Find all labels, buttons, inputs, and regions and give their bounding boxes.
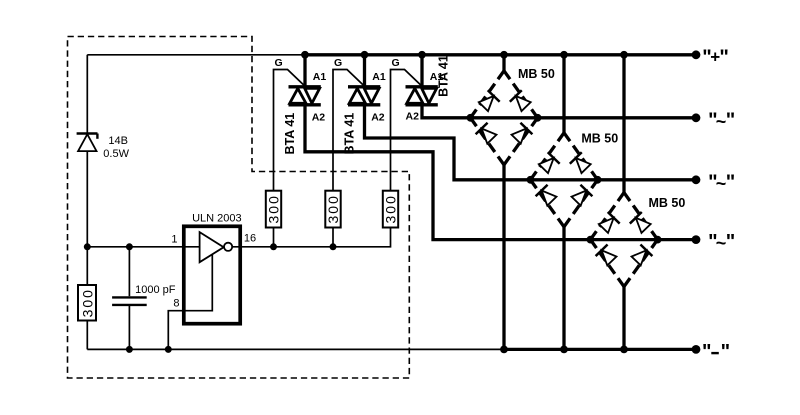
pin 8 label (173, 298, 179, 310)
wire bridge VD1 bottom stub to - bus (502, 164, 505, 350)
diode bridge VD2 MB 50 (530, 133, 597, 227)
terminal "~" phase 2 (692, 171, 736, 193)
svg-text:300: 300 (266, 194, 282, 223)
wire VS3 A2 to bridge1 left vertex (422, 105, 470, 118)
junction node VD3 on - bus (620, 346, 628, 354)
label 14B (108, 135, 128, 147)
svg-text:~: ~ (716, 173, 727, 193)
svg-text:MB 50: MB 50 (518, 67, 555, 81)
svg-text:BTA 41: BTA 41 (437, 55, 451, 97)
junction node R1-pin16 (270, 243, 277, 250)
svg-text:~: ~ (716, 233, 727, 253)
wire bridge VD2 top stub to + bus (562, 55, 565, 134)
terminal "+" output (692, 46, 729, 68)
junction node VD1 right vertex (534, 114, 542, 122)
label A2 (VS2) (371, 112, 385, 124)
svg-text:G: G (275, 57, 283, 69)
wire bottom thin bus (87, 348, 504, 350)
label A1 (VS3) (430, 71, 444, 83)
junction node cap-pin1 (126, 243, 133, 250)
junction node VD3 right vertex (654, 236, 662, 244)
label 1000 pF (135, 284, 176, 296)
IC U1 ULN 2003 box (184, 226, 240, 323)
junction node VD1 on - bus (500, 346, 508, 354)
wire bridge VD3 top stub to + bus (622, 55, 625, 194)
junction node VD1 on + bus (500, 51, 508, 59)
label A2 (VS1) (312, 112, 326, 124)
svg-text:BTA 41: BTA 41 (342, 113, 356, 155)
svg-text:300: 300 (325, 194, 341, 223)
junction node cap-bottom (126, 346, 133, 353)
op-amp inverter inside ULN2003 (200, 232, 233, 262)
triac VS2 symbol (348, 55, 380, 106)
junction node VD3 on + bus (620, 51, 628, 59)
triac VS1 symbol (289, 55, 321, 106)
svg-text:G: G (392, 57, 400, 69)
svg-text:~: ~ (716, 111, 727, 131)
svg-text:A1: A1 (372, 71, 386, 83)
svg-text:G: G (334, 57, 342, 69)
wire gate of VS3 (391, 70, 423, 191)
wire pin16 line from inverter output to gate resistors (232, 228, 390, 247)
svg-text:A2: A2 (312, 112, 326, 124)
wire gate of VS2 (333, 70, 365, 191)
label A1 (VS1) (313, 71, 327, 83)
junction node R2-pin16 (330, 243, 337, 250)
junction node VS2 top on + bus (361, 51, 369, 59)
dashed enclosure of regulator block (68, 37, 410, 379)
resistor 300 (left, on rail) (78, 285, 96, 321)
svg-text:A1: A1 (313, 71, 327, 83)
label BTA 41 (VS3) (437, 55, 451, 97)
junction node rail-pin1 (84, 243, 91, 250)
wire capacitor bottom lead (128, 306, 130, 349)
svg-text:": " (726, 231, 735, 253)
zener diode VD 14B 0.5W (77, 134, 98, 152)
wire pin1 line from rail to inverter input (87, 246, 199, 248)
svg-text:": " (719, 46, 728, 68)
wire left rail lower (resistor to bottom wire) (86, 321, 88, 350)
label MB 50 (VD3) (649, 196, 686, 210)
label MB 50 (VD1) (518, 67, 555, 81)
resistor R1 300 (gate) (266, 191, 282, 228)
wire capacitor top lead (128, 247, 130, 296)
pin 16 label (244, 233, 256, 245)
resistor R2 300 (gate) (325, 191, 341, 228)
label BTA 41 (VS2) (342, 113, 356, 155)
terminal "-" output (692, 341, 730, 363)
wire bridge VD3 bottom stub to - bus (622, 286, 625, 350)
junction node VD2 on - bus (560, 346, 568, 354)
wire top bus thick (+ bus) (305, 53, 696, 56)
svg-text:MB 50: MB 50 (581, 132, 618, 146)
wire bridge VD1 right vertex to ~ terminal 1 (538, 116, 696, 119)
diode bridge VD1 MB 50 (470, 71, 537, 165)
svg-text:": " (726, 171, 735, 193)
junction node VD2 on + bus (560, 51, 568, 59)
label A2 (VS3) (406, 111, 420, 123)
junction node VD2 left vertex (527, 176, 535, 184)
svg-text:0.5W: 0.5W (103, 148, 129, 160)
terminal "~" phase 1 (692, 109, 736, 131)
label G (VS3) (392, 57, 400, 69)
wire R1 bottom stub (273, 228, 275, 247)
label BTA 41 (VS1) (283, 113, 297, 155)
junction node pin8-bottom (165, 346, 172, 353)
wire gate of VS1 (274, 70, 306, 191)
wire left rail upper (zener anode to top bus) (86, 55, 88, 134)
capacitor C 1000pF (112, 297, 147, 305)
svg-text:": " (726, 109, 735, 131)
svg-text:A2: A2 (371, 112, 385, 124)
svg-text:": " (721, 341, 730, 363)
junction node VD2 right vertex (594, 176, 602, 184)
wire top bus thin segment from zener to first triac (87, 54, 305, 56)
junction node VS1 top on + bus (301, 51, 309, 59)
svg-text:BTA 41: BTA 41 (283, 113, 297, 155)
wire left rail middle (zener to node at pin1 line) (86, 151, 88, 285)
svg-text:14B: 14B (108, 135, 128, 147)
svg-text:300: 300 (383, 194, 399, 223)
pin 1 label (171, 234, 177, 246)
resistor R3 300 (gate) (383, 191, 399, 228)
wire VS1 A2 to bridge3 left vertex (305, 105, 590, 240)
wire - bus thick (504, 348, 696, 351)
junction node VD1 left vertex (467, 114, 475, 122)
terminal "~" phase 3 (692, 231, 736, 253)
wire R2 bottom stub (332, 228, 334, 247)
label MB 50 (VD2) (581, 132, 618, 146)
svg-text:": " (702, 341, 711, 363)
wire bridge VD1 top stub to + bus (502, 55, 505, 72)
wire bridge VD2 right vertex to ~ terminal 2 (598, 178, 696, 181)
svg-text:A2: A2 (406, 111, 420, 123)
svg-text:1: 1 (171, 234, 177, 246)
wire pin8 internal feedback line (168, 255, 212, 350)
junction node VS3 top on + bus (418, 51, 426, 59)
svg-text:16: 16 (244, 233, 256, 245)
svg-text:ULN 2003: ULN 2003 (192, 212, 242, 224)
wire VS2 A2 to bridge2 left vertex (365, 105, 531, 180)
triac VS3 symbol (406, 55, 438, 106)
label G (VS1) (275, 57, 283, 69)
svg-text:300: 300 (80, 288, 96, 317)
svg-text:MB 50: MB 50 (649, 196, 686, 210)
label ULN 2003 (192, 212, 242, 224)
svg-text:8: 8 (173, 298, 179, 310)
label 0.5W (103, 148, 129, 160)
wire bridge VD3 right vertex to ~ terminal 3 (658, 238, 696, 241)
diode bridge VD3 MB 50 (590, 193, 657, 287)
wire bridge VD2 bottom stub to - bus (562, 226, 565, 350)
label A1 (VS2) (372, 71, 386, 83)
svg-text:1000 pF: 1000 pF (135, 284, 176, 296)
junction node VD3 left vertex (587, 236, 595, 244)
label G (VS2) (334, 57, 342, 69)
